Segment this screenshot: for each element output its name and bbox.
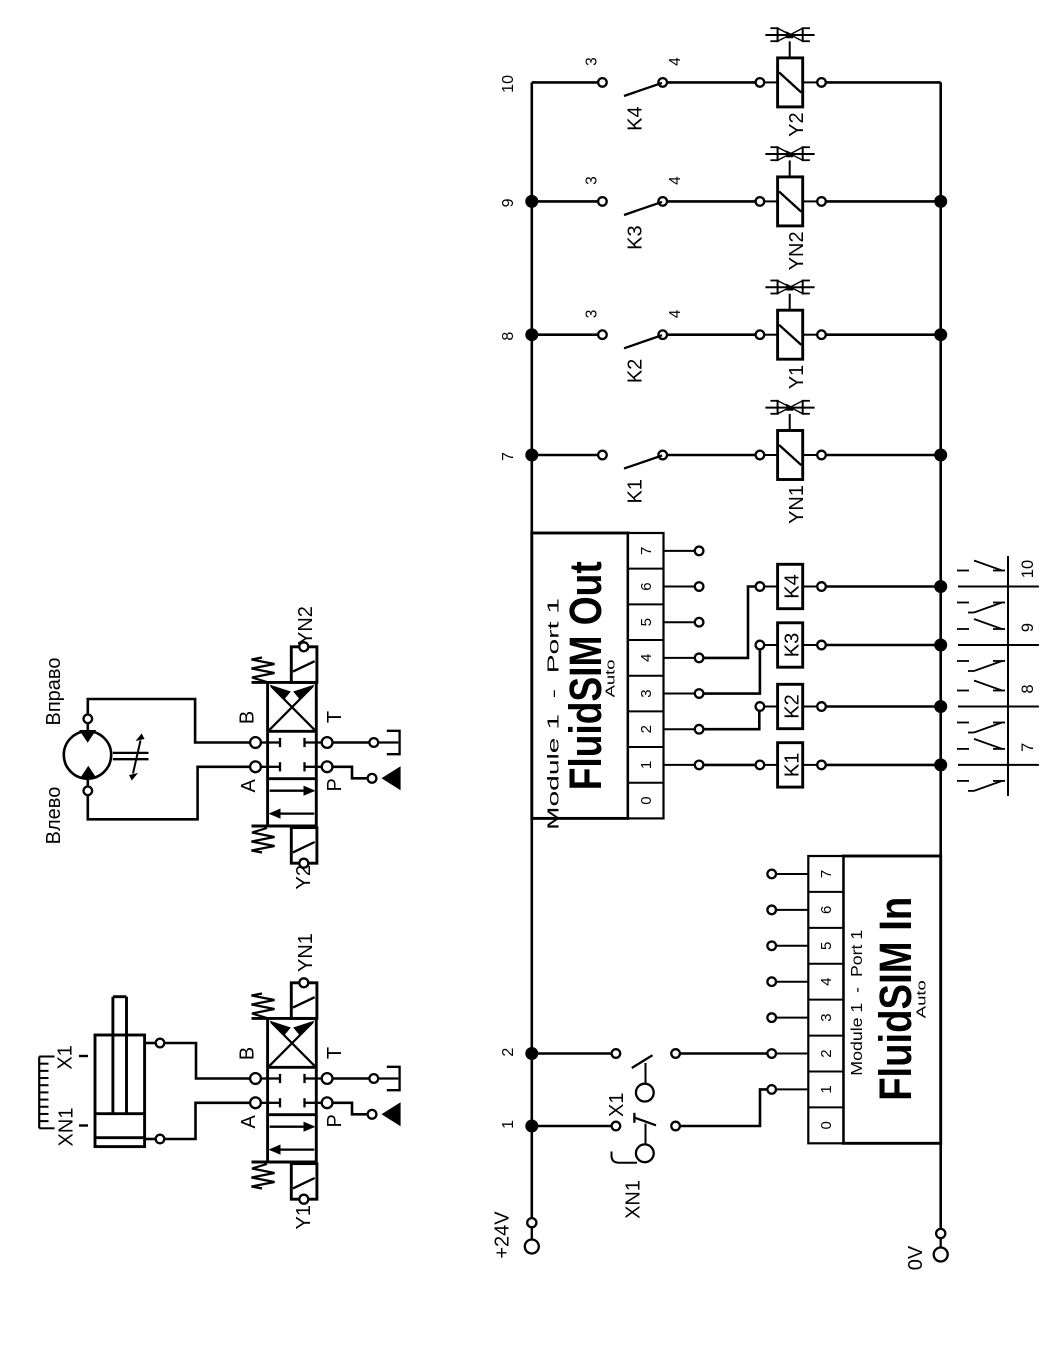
port labels A B P T bbox=[237, 711, 347, 793]
wire valve port T to tank bbox=[333, 741, 370, 744]
svg-text:4: 4 bbox=[667, 309, 684, 318]
label rung 10 bbox=[500, 75, 517, 93]
solenoid label left bbox=[293, 1205, 315, 1229]
svg-text:7: 7 bbox=[1019, 743, 1037, 752]
svg-text:K4: K4 bbox=[625, 106, 647, 130]
svg-text:7: 7 bbox=[500, 452, 517, 461]
wire relay K3 to 0V rail bbox=[826, 644, 941, 647]
svg-text:1: 1 bbox=[818, 1085, 835, 1093]
svg-text:Y1: Y1 bbox=[293, 1205, 315, 1229]
motor port circles bbox=[84, 715, 93, 796]
wire cylinder right port to valve Y1 port B bbox=[164, 1043, 250, 1079]
rung 8 wire lower segment to 0V rail bbox=[826, 333, 941, 336]
0V return rail bbox=[939, 82, 942, 1229]
label X1 bbox=[606, 1093, 628, 1117]
valve solenoid coil Y1 bbox=[756, 310, 826, 359]
rung 7 wire lower segment to 0V rail bbox=[826, 454, 941, 457]
FluidSIM In terminal cell numbers bbox=[818, 870, 835, 1130]
FluidSIM In module box bbox=[808, 856, 940, 1143]
svg-text:5: 5 bbox=[818, 942, 835, 950]
junction node K1 on 0V rail bbox=[934, 758, 947, 771]
+24V supply rail bbox=[530, 82, 533, 1218]
valve solenoid coil Y2 bbox=[756, 58, 826, 107]
svg-text:1: 1 bbox=[500, 1120, 517, 1129]
wire module output 2 to relay K2 bbox=[703, 711, 759, 729]
valve left square flow arrows (parallel) bbox=[269, 1122, 316, 1155]
rung 2 wire lower segment to module input 2 bbox=[676, 1052, 768, 1055]
contact reference column for K9 bbox=[957, 619, 1039, 671]
tank symbol bbox=[369, 1067, 399, 1090]
solenoid label right bbox=[295, 606, 317, 645]
label contact K2 bbox=[625, 359, 647, 383]
junction node rung 8 on 0V rail bbox=[934, 328, 947, 341]
valve right pilot solenoid bbox=[291, 978, 317, 1018]
valve cross-reference symbol of YN1 bbox=[765, 401, 814, 431]
valve solenoid coil YN2 bbox=[756, 177, 826, 226]
junction node K4 on 0V rail bbox=[934, 580, 947, 593]
svg-text:+24V: +24V bbox=[492, 1211, 514, 1259]
contact reference column for K7 bbox=[957, 739, 1039, 791]
valve body squares bbox=[252, 1018, 317, 1162]
svg-text:X1: X1 bbox=[55, 1045, 77, 1069]
contact pin numbers 3 and 4 on rung 9 bbox=[584, 176, 685, 185]
svg-text:3: 3 bbox=[584, 176, 601, 185]
contact reference column for K10 bbox=[957, 560, 1039, 613]
valve body squares bbox=[252, 682, 317, 826]
svg-text:P: P bbox=[324, 1114, 346, 1127]
contact pin numbers 3 and 4 on rung 10 bbox=[584, 57, 685, 66]
+24V terminal bbox=[525, 1218, 539, 1253]
label rung 7 bbox=[500, 452, 517, 461]
junction node K2 on 0V rail bbox=[934, 700, 947, 713]
svg-text:6: 6 bbox=[818, 906, 835, 914]
FluidSIM Out terminal cell numbers bbox=[638, 547, 655, 805]
contact reference column for K8 bbox=[957, 681, 1039, 733]
valve solenoid coil YN1 bbox=[756, 431, 826, 480]
svg-text:A: A bbox=[238, 778, 260, 792]
tank symbol bbox=[369, 731, 399, 754]
junction node rung 2 on +24V rail bbox=[525, 1047, 538, 1060]
svg-text:3: 3 bbox=[818, 1013, 835, 1021]
svg-text:7: 7 bbox=[638, 547, 655, 555]
label rung 8 bbox=[500, 332, 517, 341]
relay coil K1 bbox=[756, 743, 826, 787]
FluidSIM Out terminal stubs and circles bbox=[664, 547, 704, 770]
valve right square crossed flow arrows bbox=[269, 1021, 315, 1066]
wire module output 3 to relay K3 bbox=[703, 650, 760, 694]
junction node rung 7 on +24V rail bbox=[525, 449, 538, 462]
junction node rung 8 on +24V rail bbox=[525, 328, 538, 341]
FluidSIM In terminal stubs and circles bbox=[767, 870, 808, 1094]
svg-text:2: 2 bbox=[818, 1049, 835, 1057]
hydraulic motor (bidirectional) bbox=[64, 730, 111, 779]
svg-text:3: 3 bbox=[584, 310, 601, 319]
label rung 9 bbox=[500, 198, 517, 207]
FluidSIM Out module box bbox=[532, 533, 664, 818]
svg-text:8: 8 bbox=[500, 332, 517, 341]
svg-text:3: 3 bbox=[584, 57, 601, 66]
wire motor left port to valve Y2 port A bbox=[88, 767, 250, 820]
label +24V bbox=[492, 1211, 514, 1259]
label coil Y2 bbox=[786, 112, 808, 136]
pressure source symbol bbox=[368, 1102, 401, 1126]
contact reference table line bbox=[1007, 556, 1009, 796]
switch XN1 actuator link and roller bbox=[612, 1124, 654, 1163]
junction node rung 9 on +24V rail bbox=[525, 195, 538, 208]
wire cylinder left port to valve Y1 port A bbox=[164, 1103, 250, 1139]
wire module output 4 to relay K4 bbox=[703, 587, 755, 658]
rung 9 wire lower segment to 0V rail bbox=[826, 200, 941, 203]
valve left return spring bbox=[252, 1164, 275, 1189]
relay contact K1 (NO) bbox=[598, 451, 667, 469]
label rung 2 bbox=[500, 1048, 517, 1057]
svg-text:Auto: Auto bbox=[603, 659, 618, 697]
relay contact K3 (NO) bbox=[598, 197, 667, 215]
svg-text:X1: X1 bbox=[606, 1093, 628, 1117]
svg-text:Auto: Auto bbox=[914, 980, 929, 1018]
svg-text:7: 7 bbox=[818, 870, 835, 878]
valve centre square closed-port T marks bbox=[268, 1074, 317, 1108]
svg-text:YN2: YN2 bbox=[295, 606, 317, 645]
valve left pilot solenoid bbox=[291, 1164, 317, 1204]
valve right square crossed flow arrows bbox=[269, 685, 315, 730]
valve port connection circles A,B,P,T bbox=[250, 737, 332, 772]
rung 9 wire upper segment bbox=[532, 200, 603, 203]
svg-text:K1: K1 bbox=[782, 753, 804, 777]
svg-text:6: 6 bbox=[638, 582, 655, 590]
rung 2 wire upper segment bbox=[532, 1052, 616, 1055]
switch X1 actuator link and roller bbox=[636, 1063, 654, 1102]
svg-text:YN1: YN1 bbox=[786, 485, 808, 524]
solenoid label left bbox=[293, 865, 315, 889]
contact pin numbers 3 and 4 on rung 8 bbox=[584, 309, 685, 318]
distance scale (ruler) for sensors XN1/X1 bbox=[39, 1057, 54, 1129]
valve right return spring bbox=[252, 658, 275, 683]
rung 7 wire middle segment bbox=[663, 454, 756, 457]
label contact K1 bbox=[625, 479, 647, 503]
junction node rung 7 on 0V rail bbox=[934, 449, 947, 462]
wire module output 1 to relay K1 bbox=[703, 764, 755, 767]
svg-text:4: 4 bbox=[818, 978, 835, 986]
svg-text:B: B bbox=[237, 1047, 259, 1060]
svg-text:10: 10 bbox=[1019, 560, 1037, 578]
FluidSIM In module labels bbox=[849, 897, 929, 1101]
svg-text:Y2: Y2 bbox=[786, 112, 808, 136]
valve cross-reference symbol of Y2 bbox=[765, 28, 814, 58]
junction node rung 9 on 0V rail bbox=[934, 195, 947, 208]
svg-text:4: 4 bbox=[667, 176, 684, 185]
wire relay K1 to 0V rail bbox=[826, 764, 941, 767]
switch X1 (NO limit switch) contacts bbox=[612, 1049, 680, 1068]
relay contact K2 (NO) bbox=[598, 330, 667, 348]
label coil Y1 bbox=[786, 365, 808, 389]
svg-text:0: 0 bbox=[638, 796, 655, 804]
svg-text:XN1: XN1 bbox=[56, 1108, 78, 1147]
sensor label XN1 bbox=[56, 1108, 89, 1147]
label 0V bbox=[905, 1245, 927, 1270]
label coil YN1 bbox=[786, 485, 808, 524]
svg-text:1: 1 bbox=[638, 761, 655, 769]
relay coil K4 bbox=[756, 564, 826, 608]
relay contact K4 (NO) bbox=[598, 78, 667, 96]
svg-text:A: A bbox=[238, 1114, 260, 1128]
rung 1 wire upper segment bbox=[532, 1125, 616, 1128]
motor adjustment arrow bbox=[129, 734, 145, 781]
svg-text:K2: K2 bbox=[782, 694, 804, 718]
svg-text:Module 1 - Port 1: Module 1 - Port 1 bbox=[849, 930, 866, 1076]
svg-text:9: 9 bbox=[500, 198, 517, 207]
label rung 1 bbox=[500, 1120, 517, 1129]
wire relay K2 to 0V rail bbox=[826, 705, 941, 708]
wire valve port T to tank bbox=[333, 1077, 370, 1080]
svg-text:K3: K3 bbox=[625, 225, 647, 249]
svg-text:T: T bbox=[324, 711, 346, 723]
svg-text:0V: 0V bbox=[905, 1245, 927, 1270]
rung 8 wire middle segment bbox=[663, 333, 756, 336]
svg-text:4: 4 bbox=[667, 57, 684, 66]
FluidSIM Out module labels bbox=[546, 561, 618, 830]
svg-text:P: P bbox=[324, 778, 346, 791]
relay coil K3 bbox=[756, 623, 826, 667]
rung 7 wire upper segment bbox=[532, 454, 603, 457]
motor label Влево bbox=[43, 787, 65, 845]
valve port connection circles A,B,P,T bbox=[250, 1073, 332, 1108]
svg-text:YN2: YN2 bbox=[786, 231, 808, 270]
valve right return spring bbox=[252, 994, 275, 1019]
valve cross-reference symbol of Y1 bbox=[765, 281, 814, 311]
0V terminal bbox=[934, 1229, 948, 1262]
rung 10 wire middle segment bbox=[663, 81, 756, 84]
svg-text:2: 2 bbox=[500, 1048, 517, 1057]
label coil YN2 bbox=[786, 231, 808, 270]
svg-text:XN1: XN1 bbox=[623, 1180, 645, 1219]
rung 9 wire middle segment bbox=[663, 200, 756, 203]
cylinder port stubs and connection circles bbox=[145, 1039, 165, 1144]
svg-text:10: 10 bbox=[500, 75, 517, 93]
wire motor right port to valve Y2 port B bbox=[88, 699, 250, 743]
svg-text:K3: K3 bbox=[782, 633, 804, 657]
junction node rung 1 on +24V rail bbox=[525, 1120, 538, 1133]
svg-text:K4: K4 bbox=[782, 574, 804, 598]
label contact K4 bbox=[625, 106, 647, 130]
rung 10 wire lower segment to 0V rail bbox=[826, 81, 941, 84]
label contact K3 bbox=[625, 225, 647, 249]
motor shaft bbox=[113, 753, 149, 759]
svg-text:Y2: Y2 bbox=[293, 865, 315, 889]
svg-text:Вправо: Вправо bbox=[43, 658, 65, 726]
rung 10 wire upper segment bbox=[532, 81, 603, 84]
svg-text:Влево: Влево bbox=[43, 787, 65, 845]
label XN1 bbox=[623, 1180, 645, 1219]
svg-text:Y1: Y1 bbox=[786, 365, 808, 389]
svg-text:K1: K1 bbox=[625, 479, 647, 503]
svg-text:B: B bbox=[237, 711, 259, 724]
valve left pilot solenoid bbox=[291, 828, 317, 868]
valve centre square closed-port T marks bbox=[268, 738, 317, 772]
svg-text:8: 8 bbox=[1019, 684, 1037, 693]
cylinder (double acting) body bbox=[95, 997, 145, 1147]
svg-text:K2: K2 bbox=[625, 359, 647, 383]
sensor label X1 bbox=[55, 1045, 88, 1069]
svg-text:2: 2 bbox=[638, 725, 655, 733]
svg-text:0: 0 bbox=[818, 1121, 835, 1129]
wire valve port P to pressure source bbox=[333, 767, 368, 779]
motor label Вправо bbox=[43, 658, 65, 726]
wire valve port P to pressure source bbox=[333, 1103, 368, 1115]
switch XN1 (NC limit switch) contacts bbox=[612, 1113, 680, 1131]
port labels A B P T bbox=[237, 1047, 347, 1129]
junction node K3 on 0V rail bbox=[934, 639, 947, 652]
pressure source symbol bbox=[368, 766, 401, 790]
valve cross-reference symbol of YN2 bbox=[765, 147, 814, 177]
rung 8 wire upper segment bbox=[532, 333, 603, 336]
valve left return spring bbox=[252, 828, 275, 853]
rung 1 wire lower segment to module input 1 bbox=[676, 1089, 768, 1126]
svg-text:T: T bbox=[324, 1047, 346, 1059]
svg-text:5: 5 bbox=[638, 618, 655, 626]
svg-text:4: 4 bbox=[638, 654, 655, 662]
wire relay K4 to 0V rail bbox=[826, 585, 941, 588]
svg-text:9: 9 bbox=[1019, 623, 1037, 632]
relay coil K2 bbox=[756, 684, 826, 728]
valve left square flow arrows (parallel) bbox=[269, 786, 316, 819]
solenoid label right bbox=[295, 933, 317, 972]
valve right pilot solenoid bbox=[291, 642, 317, 682]
svg-text:YN1: YN1 bbox=[295, 933, 317, 972]
svg-text:3: 3 bbox=[638, 689, 655, 697]
